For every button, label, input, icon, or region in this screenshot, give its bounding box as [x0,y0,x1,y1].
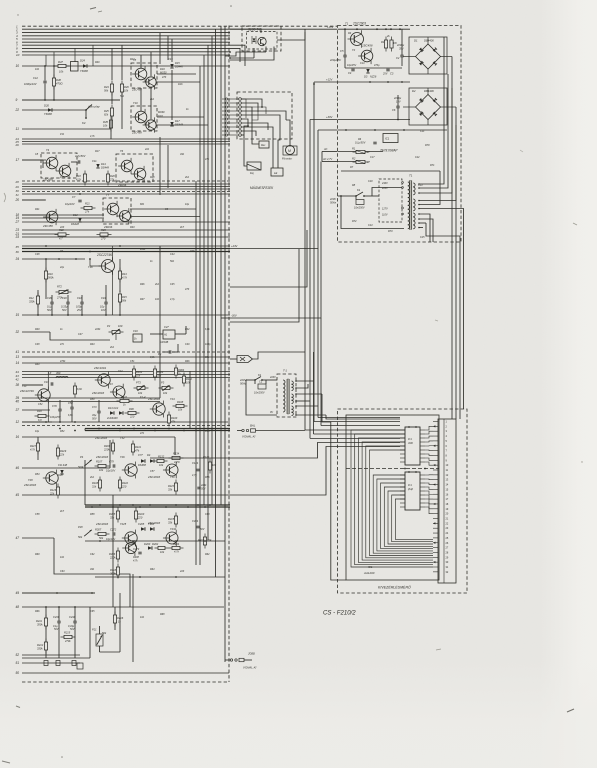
svg-text:M: M [288,149,291,153]
svg-text:D14: D14 [101,162,106,166]
svg-text:10n/250V: 10n/250V [254,392,265,395]
t1 primary feed [270,379,277,381]
resistor R134 [169,457,184,459]
svg-text:33μ: 33μ [92,413,97,417]
svg-text:4,7Ω: 4,7Ω [174,460,180,464]
resistor R108 [173,405,188,407]
svg-text:R429: R429 [60,449,67,453]
big tx primary winding [408,182,410,186]
resistor W100 [117,400,133,402]
svg-text:470Ω: 470Ω [56,82,63,86]
svg-text:DS448: DS448 [175,65,183,69]
svg-text:2SC458: 2SC458 [361,44,373,48]
svg-text:10k: 10k [136,374,141,378]
resistor R1psu [385,37,387,52]
mains cap C1 [356,200,364,205]
transistor T4 pair [41,153,77,178]
verticals psu to display [451,57,453,420]
svg-text:16V: 16V [101,308,106,312]
svg-text:D26: D26 [44,104,49,108]
svg-text:C4: C4 [348,71,352,75]
svg-text:VONAL KI: VONAL KI [243,666,257,670]
junction dots head wires [247,125,249,127]
svg-text:P21: P21 [92,628,97,632]
svg-text:Fej: Fej [250,171,254,175]
svg-text:47n: 47n [60,343,65,346]
pot P3 [159,387,174,389]
svg-text:240V: 240V [381,182,388,185]
svg-text:T26: T26 [120,455,125,459]
svg-text:C7: C7 [72,195,76,199]
resistor R10 [45,268,47,283]
capacitor C7 [79,193,81,195]
vertical x310 [309,120,311,439]
svg-text:T-1: T-1 [283,369,287,373]
svg-text:16V: 16V [396,100,401,104]
svg-text:R47: R47 [58,60,63,64]
svg-text:D15: D15 [175,61,180,65]
erase head symbol [259,141,269,148]
svg-text:10: 10 [16,53,20,57]
svg-text:M030: M030 [158,110,165,114]
svg-text:D3: D3 [364,75,368,79]
resistor R12 [37,293,39,308]
svg-text:R72: R72 [352,220,357,223]
svg-text:220: 220 [179,570,185,573]
capacitor C79 [112,464,114,467]
svg-text:R35: R35 [190,250,195,253]
resistor R103 [154,366,156,381]
svg-text:50: 50 [16,671,20,675]
svg-text:D1: D1 [414,39,418,43]
rails y428-430 [85,428,230,430]
svg-text:34: 34 [16,257,20,261]
wire y318 inner [221,317,230,319]
svg-text:C12: C12 [33,76,38,80]
capacitor C239 [57,620,60,622]
wires preamp interconnect [42,160,44,168]
svg-text:10k: 10k [160,550,165,554]
svg-text:220: 220 [137,516,143,520]
svg-text:4,7k: 4,7k [90,135,95,138]
primary tap box [379,179,402,222]
svg-text:T32: T32 [120,436,125,440]
svg-text:DS388: DS388 [138,463,146,467]
resistor R47 [55,65,70,67]
display top horizontal feeds [305,429,400,431]
resistor R307 [95,533,110,535]
svg-text:C324: C324 [192,519,199,523]
resistor R204 [169,547,184,549]
svg-text:68p: 68p [205,356,210,359]
dots rail48 [45,606,47,608]
svg-text:R310: R310 [138,512,145,516]
rail +12V from psu [314,81,337,83]
resistor R23 [97,234,112,236]
svg-text:R1: R1 [352,147,356,151]
svg-text:C65: C65 [90,610,95,613]
svg-text:2SC2274K: 2SC2274K [96,253,113,257]
svg-text:C41: C41 [77,296,82,300]
IC A right wires to connector [425,426,433,430]
IC A pins [400,429,405,431]
svg-text:10k: 10k [124,89,129,93]
svg-text:R66: R66 [35,610,40,613]
resistor R132 [154,460,168,462]
svg-text:R24: R24 [130,58,135,61]
resistor R11col [74,383,76,398]
wire 47 elbow [54,538,130,607]
svg-text:C39: C39 [47,296,52,300]
svg-text:560k: 560k [48,276,54,280]
resistor R110v [119,477,121,492]
svg-text:T1: T1 [345,22,349,26]
svg-text:4,7k: 4,7k [174,550,180,554]
rail y577 [95,576,225,578]
transformer core [286,379,288,414]
svg-text:0V: 0V [270,411,273,414]
svg-text:11: 11 [16,127,20,131]
bundle component drops [45,55,47,66]
svg-text:T2: T2 [352,48,356,52]
svg-text:+12V: +12V [326,78,333,82]
svg-text:220k: 220k [94,328,101,331]
svg-text:R37: R37 [140,298,145,301]
vertical x305 [304,29,306,430]
svg-text:270: 270 [100,237,106,241]
svg-text:R427: R427 [30,444,37,448]
svg-text:IC1: IC1 [408,484,412,487]
svg-text:R21: R21 [85,202,90,206]
svg-text:D4: D4 [147,453,151,457]
svg-text:R64: R64 [150,568,155,571]
svg-text:C16: C16 [133,329,138,333]
regulator IC box [383,134,398,143]
transistor T28 [46,472,58,484]
svg-text:R307: R307 [95,528,102,532]
trimmer P2 [109,331,124,333]
svg-text:C24: C24 [368,224,373,227]
svg-text:47: 47 [16,536,20,540]
svg-text:36: 36 [16,250,20,254]
svg-text:Auto play: Auto play [87,105,100,109]
svg-text:D17: D17 [175,119,180,123]
svg-text:R112: R112 [186,377,193,381]
svg-text:22: 22 [15,108,20,112]
svg-text:C43: C43 [101,296,106,300]
svg-text:T225: T225 [120,522,127,526]
connector strip [438,419,456,583]
svg-text:R70: R70 [425,144,430,147]
svg-text:C70: C70 [52,404,57,408]
connector pins [433,421,438,423]
svg-text:R45: R45 [103,120,108,124]
svg-text:470μ: 470μ [374,64,380,67]
svg-text:C6: C6 [392,108,396,112]
svg-text:10k: 10k [138,391,143,395]
svg-text:C60: C60 [205,513,210,516]
svg-text:127V: 127V [382,208,388,211]
svg-text:4,7k: 4,7k [30,448,36,452]
svg-text:R2: R2 [352,157,356,161]
svg-text:4,7μ/50V: 4,7μ/50V [75,154,86,158]
svg-text:C77: C77 [138,453,143,457]
svg-text:330k: 330k [29,300,35,304]
svg-text:4k7: 4k7 [60,510,65,513]
pot P4 [84,460,92,466]
IC sub block B [405,472,420,510]
svg-text:T28: T28 [28,478,33,482]
svg-text:10k: 10k [212,463,217,467]
svg-text:R1: R1 [381,40,385,44]
opto top feed [260,29,262,33]
svg-text:IC1: IC1 [385,137,390,141]
capacitor C19 [50,382,52,385]
svg-text:27: 27 [15,220,20,224]
svg-text:C15: C15 [168,57,173,61]
verticals bottom block [89,607,91,658]
svg-text:DB4406: DB4406 [424,39,434,43]
svg-text:R58: R58 [90,513,95,516]
svg-text:C5: C5 [340,49,344,53]
svg-text:C62: C62 [90,553,95,556]
svg-text:2SC2603: 2SC2603 [95,522,109,526]
svg-text:R40: R40 [35,328,40,331]
svg-text:C49: C49 [185,343,190,346]
svg-text:4,7μ: 4,7μ [192,474,197,477]
svg-text:P28: P28 [78,525,83,529]
vertical x321 elbow to y318 [230,162,321,319]
psu dashed box [338,26,462,243]
svg-text:14: 14 [16,361,20,365]
svg-text:VONAL KI: VONAL KI [242,435,256,439]
svg-text:C25: C25 [420,236,425,239]
psu top rail [338,28,411,30]
svg-text:50V: 50V [92,417,97,421]
y458 wire elbow up [305,443,400,459]
svg-text:C124: C124 [192,461,199,465]
svg-text:27k: 27k [84,210,90,214]
svg-text:2200μ: 2200μ [393,96,402,100]
svg-text:R50: R50 [90,398,95,401]
wire node [22,99,120,101]
svg-text:R52: R52 [60,430,65,433]
svg-text:220k: 220k [103,448,110,452]
diode D14 [96,164,99,168]
left big loop wires [230,249,299,322]
svg-text:50V: 50V [201,488,206,491]
resistor R107 [95,465,110,467]
svg-text:Főmotor: Főmotor [282,157,292,161]
svg-text:100k: 100k [140,248,146,251]
svg-text:22μ: 22μ [59,266,65,269]
svg-text:C58: C58 [35,513,40,516]
svg-text:50Hz: 50Hz [330,201,337,205]
svg-text:33k: 33k [168,521,173,525]
svg-text:50k: 50k [78,535,83,539]
svg-text:50V: 50V [70,628,75,631]
svg-text:/βαβ: /βαβ [407,488,413,491]
svg-text:15: 15 [16,313,20,317]
wire opto to psu [277,32,305,40]
svg-text:220μ/25V: 220μ/25V [329,58,341,62]
resistor R215 [61,636,76,638]
svg-text:R108: R108 [177,400,184,404]
svg-text:47k: 47k [135,449,140,453]
svg-text:+24V: +24V [231,244,238,248]
svg-text:2SC2603: 2SC2603 [352,22,366,26]
motor M [286,146,295,155]
svg-text:2k2: 2k2 [154,283,160,286]
svg-text:D12: D12 [73,213,78,217]
svg-text:D200: D200 [144,542,151,546]
pot RT2 [56,291,72,293]
secondary wires to verticals [419,37,444,184]
wire 46 elbow [109,440,111,468]
svg-text:R73: R73 [388,230,393,233]
svg-text:R56: R56 [205,476,210,479]
bridge rectifier D1 [409,37,447,74]
junction dots r15 [51,314,53,316]
resistor R115 [175,480,177,495]
big tx core [409,181,411,230]
svg-text:R28: R28 [150,176,155,179]
svg-text:R43: R43 [90,343,95,346]
svg-text:AA1200: AA1200 [363,571,375,575]
svg-text:R54: R54 [35,473,40,476]
svg-text:52: 52 [16,653,20,657]
svg-text:4,7: 4,7 [59,237,63,241]
svg-text:C51: C51 [130,360,135,363]
vertical x318 elbow to y248 [230,130,318,249]
svg-text:R305: R305 [109,512,116,516]
svg-text:C71: C71 [92,405,97,409]
svg-text:DS448: DS448 [101,166,109,170]
svg-text:9: 9 [16,98,18,102]
svg-text:R315: R315 [168,517,175,521]
svg-text:390: 390 [56,371,61,375]
svg-text:100μ/25V: 100μ/25V [50,416,61,419]
svg-text:R134: R134 [173,452,180,456]
svg-text:12: 12 [16,420,20,424]
svg-text:R100: R100 [171,416,178,420]
resistor R25 [111,105,113,120]
svg-text:R33: R33 [130,226,135,229]
svg-text:DS448: DS448 [175,123,183,127]
svg-text:220: 220 [59,226,65,229]
pot P28 [84,530,92,536]
svg-text:350k: 350k [37,623,43,627]
svg-text:R25: R25 [104,109,109,113]
svg-text:42: 42 [16,378,20,382]
svg-text:K4: K4 [82,121,86,125]
auto play switch K4 [85,109,87,111]
svg-text:2SC2603: 2SC2603 [23,483,37,487]
transistor T8 pair [131,63,157,88]
svg-text:2k2: 2k2 [89,476,95,479]
transistor T26 [125,464,137,476]
svg-text:4,7k: 4,7k [133,560,138,563]
vertical bus x221 x225 [220,26,222,505]
svg-text:10n/250V: 10n/250V [354,207,365,210]
capacitor C125 [197,486,200,488]
resistor R318 [117,564,119,579]
y497 wire elbow up [310,447,400,496]
svg-text:82k: 82k [104,113,109,117]
svg-text:AC: AC [323,148,328,151]
resistor R306 [117,548,119,563]
svg-text:10k: 10k [159,463,164,467]
resistor R411 [132,441,134,456]
svg-text:13: 13 [16,355,20,359]
resistor R126 [57,484,59,499]
svg-text:41: 41 [16,350,20,354]
T7 output wires [130,208,196,210]
svg-text:270k: 270k [64,639,71,643]
resistor R48 [53,75,55,90]
svg-text:R102: R102 [136,370,143,374]
svg-text:IC1: IC1 [408,438,412,441]
svg-text:C2: C2 [396,56,400,60]
svg-text:220: 220 [121,485,127,489]
resistor R22 [55,234,70,236]
svg-text:28: 28 [15,180,20,184]
svg-text:22k: 22k [49,492,55,496]
cluster cross links [157,73,196,75]
svg-text:R411: R411 [135,445,142,449]
svg-text:R13: R13 [122,272,127,276]
connector pads y663 [44,661,48,666]
svg-text:KIVEZÉRLÉSMÉRŐ: KIVEZÉRLÉSMÉRŐ [378,585,411,590]
svg-text:C50: C50 [68,401,73,405]
svg-text:R306: R306 [109,552,116,556]
svg-text:TS988: TS988 [44,112,52,116]
transistor T325 [125,542,136,553]
svg-text:10μ/16V: 10μ/16V [65,202,75,206]
svg-text:R49: R49 [95,61,100,64]
resistor R13 [119,268,121,283]
svg-text:4,7k: 4,7k [122,276,128,280]
svg-text:D16: D16 [160,67,165,71]
svg-text:R215: R215 [64,631,71,635]
svg-text:10k: 10k [99,468,104,472]
transistor T6 pair [116,154,153,182]
svg-text:2SC458: 2SC458 [42,224,53,228]
rail y130 to block [318,129,337,131]
svg-text:50V: 50V [200,528,205,531]
svg-text:33k: 33k [110,516,115,520]
left terminal rail bundle top [22,25,337,27]
resistor R14 [119,291,121,306]
svg-text:C47: C47 [78,333,83,336]
svg-text:56k: 56k [122,299,127,303]
svg-text:PT3: PT3 [136,381,141,385]
capacitor C43 [104,301,107,303]
svg-text:C40: C40 [62,296,67,300]
svg-text:110V: 110V [382,214,388,217]
svg-text:2SC2603: 2SC2603 [91,391,105,395]
trimmer P21 [96,634,103,646]
svg-text:27k: 27k [109,178,115,182]
svg-text:35V: 35V [399,47,404,51]
svg-text:R16: R16 [37,409,42,413]
rail y541 [85,540,225,542]
svg-text:2xDS448: 2xDS448 [106,416,118,420]
capacitor C12 [43,80,46,82]
wire erase to bus [253,352,306,359]
svg-text:2SC1001: 2SC1001 [93,366,107,370]
svg-text:470: 470 [162,76,167,79]
